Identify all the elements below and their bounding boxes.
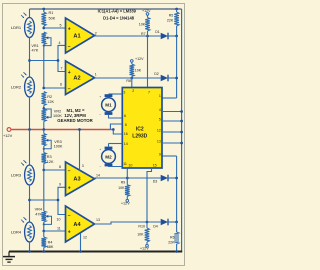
wire strap to IC2 pin16 xyxy=(113,130,122,135)
svg-text:5: 5 xyxy=(60,24,62,28)
svg-text:+: + xyxy=(99,94,101,98)
terminal +12V input xyxy=(7,128,11,132)
wire to A3 pin8 xyxy=(44,169,66,171)
svg-text:8: 8 xyxy=(125,123,127,127)
wire A1 output to IC2 pin7 xyxy=(147,36,149,88)
svg-text:R10: R10 xyxy=(138,224,145,228)
preset VR3 xyxy=(43,130,45,134)
node LDR1/LDR2 tap xyxy=(28,59,31,62)
svg-text:+: + xyxy=(68,229,71,235)
op-amp A1 xyxy=(66,18,95,53)
svg-text:IC2: IC2 xyxy=(136,126,144,132)
svg-text:R7: R7 xyxy=(141,32,146,36)
diode D4 xyxy=(161,219,168,226)
svg-text:5: 5 xyxy=(159,117,161,121)
wire IC2 pin3 to M1 xyxy=(109,93,123,95)
node ref chain on +12V bus xyxy=(42,128,45,131)
svg-text:3: 3 xyxy=(82,164,84,168)
svg-text:100K: 100K xyxy=(54,144,63,148)
resistor R2 xyxy=(42,92,47,106)
node D4 cathode xyxy=(175,221,178,224)
svg-text:1: 1 xyxy=(95,72,97,76)
svg-text:14: 14 xyxy=(124,142,128,146)
svg-text:D1-D4 = 1N4148: D1-D4 = 1N4148 xyxy=(103,16,135,21)
LDR LDR1 xyxy=(25,18,35,38)
svg-text:R5: R5 xyxy=(169,13,174,17)
svg-text:+12V: +12V xyxy=(121,202,130,206)
svg-text:12K: 12K xyxy=(47,160,54,164)
svg-text:LDR3: LDR3 xyxy=(11,172,22,177)
diode D3 xyxy=(161,175,168,182)
svg-text:R6: R6 xyxy=(170,235,175,239)
svg-text:LDR2: LDR2 xyxy=(11,84,22,89)
svg-text:8: 8 xyxy=(59,165,61,169)
svg-text:4: 4 xyxy=(159,108,161,112)
svg-text:LDR4: LDR4 xyxy=(11,229,22,234)
svg-text:9: 9 xyxy=(59,182,61,186)
wire LDR1 to tap xyxy=(29,38,31,78)
wire A1 output row xyxy=(95,35,161,37)
resistor R10 pull-up xyxy=(146,222,148,228)
svg-text:A2: A2 xyxy=(73,76,80,82)
wire M1 to IC2 pin6 xyxy=(109,115,123,118)
wire IC1 Vcc pin3 stub xyxy=(79,130,81,171)
node A4 plus input xyxy=(42,230,45,233)
wire IC2 pin15 stub xyxy=(147,168,152,222)
svg-text:GEARED MOTOR: GEARED MOTOR xyxy=(57,118,93,123)
motor M1 xyxy=(105,94,113,97)
svg-text:7: 7 xyxy=(148,90,150,94)
wire ref chain down xyxy=(43,170,45,211)
wire M2 to IC2 pin11 xyxy=(109,165,123,167)
node R7 junction xyxy=(146,35,149,38)
svg-text:9: 9 xyxy=(159,152,161,156)
wire to A4 pin11 xyxy=(44,230,66,232)
svg-text:M1: M1 xyxy=(105,103,112,108)
svg-text:+12V: +12V xyxy=(3,133,13,138)
svg-text:VR4: VR4 xyxy=(35,208,42,212)
op-amp A4 xyxy=(66,206,95,242)
wire A1 pin4 to A2 pin7 link xyxy=(58,45,66,71)
svg-text:7: 7 xyxy=(61,67,63,71)
svg-text:R4: R4 xyxy=(48,240,53,244)
svg-text:D3: D3 xyxy=(153,180,158,184)
node A1 plus input xyxy=(42,27,45,30)
node A2 minus input xyxy=(42,87,45,90)
svg-text:IC1(A1-A4) = LM339: IC1(A1-A4) = LM339 xyxy=(98,9,137,14)
svg-text:4: 4 xyxy=(59,41,61,45)
wire +12V bus to LDR3 xyxy=(29,130,31,166)
svg-text:3: 3 xyxy=(123,91,125,95)
svg-text:M2: M2 xyxy=(105,154,112,159)
svg-text:+: + xyxy=(68,186,71,192)
preset VR4 xyxy=(42,211,47,222)
wire lower tap xyxy=(30,199,59,201)
motor M2 xyxy=(108,144,110,147)
svg-text:15: 15 xyxy=(153,164,157,168)
node D3 cathode xyxy=(175,177,178,180)
node R10 junction xyxy=(146,221,149,224)
ground rail top xyxy=(30,8,182,10)
svg-text:2: 2 xyxy=(95,31,97,35)
op-amp A3 xyxy=(66,162,95,196)
svg-text:11: 11 xyxy=(123,162,127,166)
svg-text:A4: A4 xyxy=(73,222,81,228)
svg-text:R8: R8 xyxy=(126,79,131,83)
svg-text:−: − xyxy=(68,44,71,50)
svg-text:−: − xyxy=(99,113,101,117)
node IC2 pin10 junction xyxy=(126,177,129,180)
ground rail bottom xyxy=(9,251,182,253)
svg-text:10K: 10K xyxy=(118,186,125,190)
wire LDR2 to +12V bus xyxy=(29,97,31,130)
resistor R6 pull-down xyxy=(176,222,178,232)
node R1 on ground rail xyxy=(42,8,45,11)
svg-text:10K: 10K xyxy=(139,23,146,27)
resistor R4 xyxy=(43,231,45,237)
preset VR2 xyxy=(42,107,45,110)
resistor R8 pull-up xyxy=(131,60,134,63)
svg-text:47K: 47K xyxy=(32,48,39,52)
svg-text:+: + xyxy=(99,147,101,151)
wire IC2 pin8 branch xyxy=(110,124,122,130)
node R8 junction xyxy=(130,77,133,80)
op-amp A2 xyxy=(66,61,95,95)
node D2 cathode xyxy=(175,77,178,80)
wire IC1 GND pin12 stub xyxy=(80,233,82,252)
svg-text:12K: 12K xyxy=(47,100,54,104)
wire IC2 pin14 to M2 xyxy=(109,143,123,145)
wire upper tap xyxy=(30,60,59,62)
svg-text:13: 13 xyxy=(96,218,100,222)
node +12V strap xyxy=(112,128,115,131)
wire A3 pin9 to A4 pin10 link xyxy=(58,187,66,214)
node D1 cathode xyxy=(175,35,178,38)
diode D2 xyxy=(161,75,168,82)
svg-text:13: 13 xyxy=(157,139,161,143)
svg-text:R1: R1 xyxy=(49,11,54,15)
ground symbol xyxy=(8,252,10,257)
svg-text:−: − xyxy=(68,86,71,92)
svg-text:6: 6 xyxy=(124,114,126,118)
wire A3 output row xyxy=(95,177,161,179)
preset VR1 xyxy=(42,32,47,45)
wire IC2 pin13 to rail xyxy=(162,142,182,144)
svg-text:+12V: +12V xyxy=(135,57,144,61)
svg-text:A1: A1 xyxy=(73,33,80,39)
resistor R7 pull-up xyxy=(146,13,149,16)
wire IC2 pin1 xyxy=(162,97,177,99)
svg-text:−: − xyxy=(99,164,101,168)
svg-text:+: + xyxy=(68,70,71,76)
svg-text:+: + xyxy=(68,26,71,32)
diode D1 xyxy=(161,33,168,40)
wire A2 output to IC2 pin2 xyxy=(131,78,133,88)
svg-text:12: 12 xyxy=(83,235,87,239)
resistor R3 xyxy=(43,146,45,153)
wire to A1 pin5 xyxy=(44,27,66,29)
svg-text:14: 14 xyxy=(96,173,100,177)
LDR LDR2 xyxy=(25,77,35,97)
LDR LDR4 xyxy=(25,222,35,242)
svg-text:R2: R2 xyxy=(47,95,52,99)
svg-text:A3: A3 xyxy=(73,177,80,183)
resistor R9 pull-up xyxy=(126,178,128,185)
svg-text:+12V: +12V xyxy=(140,246,149,250)
wire IC2 pin10 stub xyxy=(126,168,128,178)
svg-text:LDR1: LDR1 xyxy=(11,25,22,30)
node LDR2 on +12V bus xyxy=(28,128,31,131)
node R6 on ground rail xyxy=(175,250,178,253)
svg-text:11: 11 xyxy=(57,226,61,230)
node upper tap on link xyxy=(57,59,60,62)
svg-text:68K: 68K xyxy=(47,245,54,249)
svg-text:D4: D4 xyxy=(153,224,158,228)
svg-text:+12V: +12V xyxy=(142,9,151,13)
wire EN1 net xyxy=(176,36,178,98)
svg-text:10: 10 xyxy=(128,164,132,168)
wire LDR1 top lead xyxy=(29,9,31,18)
svg-text:10K: 10K xyxy=(135,68,142,72)
svg-text:D2: D2 xyxy=(154,72,159,76)
svg-text:10: 10 xyxy=(57,217,61,221)
resistor R5 pull-down xyxy=(175,8,178,11)
svg-text:−: − xyxy=(68,213,71,219)
svg-text:50K: 50K xyxy=(49,17,56,21)
svg-text:R3: R3 xyxy=(47,155,52,159)
svg-text:10K: 10K xyxy=(137,232,144,236)
IC2 L293D xyxy=(122,88,162,169)
wire LDR4 to ground rail xyxy=(29,242,31,252)
svg-text:L293D: L293D xyxy=(132,133,147,139)
wire to A2 pin6 xyxy=(44,87,66,89)
page frame xyxy=(3,4,185,266)
svg-text:1: 1 xyxy=(159,94,161,98)
node A3 minus input xyxy=(42,169,45,172)
svg-text:16: 16 xyxy=(124,132,128,136)
wire LDR3 to tap xyxy=(29,185,31,222)
svg-text:6: 6 xyxy=(60,82,62,86)
resistor R1 xyxy=(43,9,45,12)
wire IC2 pin4 to rail xyxy=(162,111,182,113)
node lower tap on link xyxy=(57,199,60,202)
page background xyxy=(0,0,187,270)
svg-text:47K: 47K xyxy=(35,213,42,217)
wire +12V bus xyxy=(11,129,113,131)
wire IC2 pin12 to rail xyxy=(162,131,182,133)
wire IC2 pin9 xyxy=(162,155,177,157)
svg-text:12: 12 xyxy=(157,128,161,132)
wire EN2 net xyxy=(176,156,178,222)
svg-text:22K: 22K xyxy=(168,240,175,244)
node LDR3/LDR4 tap xyxy=(28,199,31,202)
wire IC2 pin5 to rail xyxy=(162,120,182,122)
svg-text:R9: R9 xyxy=(121,181,126,185)
LDR LDR3 xyxy=(25,165,35,185)
svg-text:D1: D1 xyxy=(155,30,160,34)
wire A4 output row xyxy=(95,222,161,224)
ground rail right xyxy=(181,9,183,252)
wire A2 output row xyxy=(95,77,161,79)
svg-text:2: 2 xyxy=(132,89,134,93)
svg-text:22K: 22K xyxy=(167,18,174,22)
svg-text:−: − xyxy=(68,168,71,174)
